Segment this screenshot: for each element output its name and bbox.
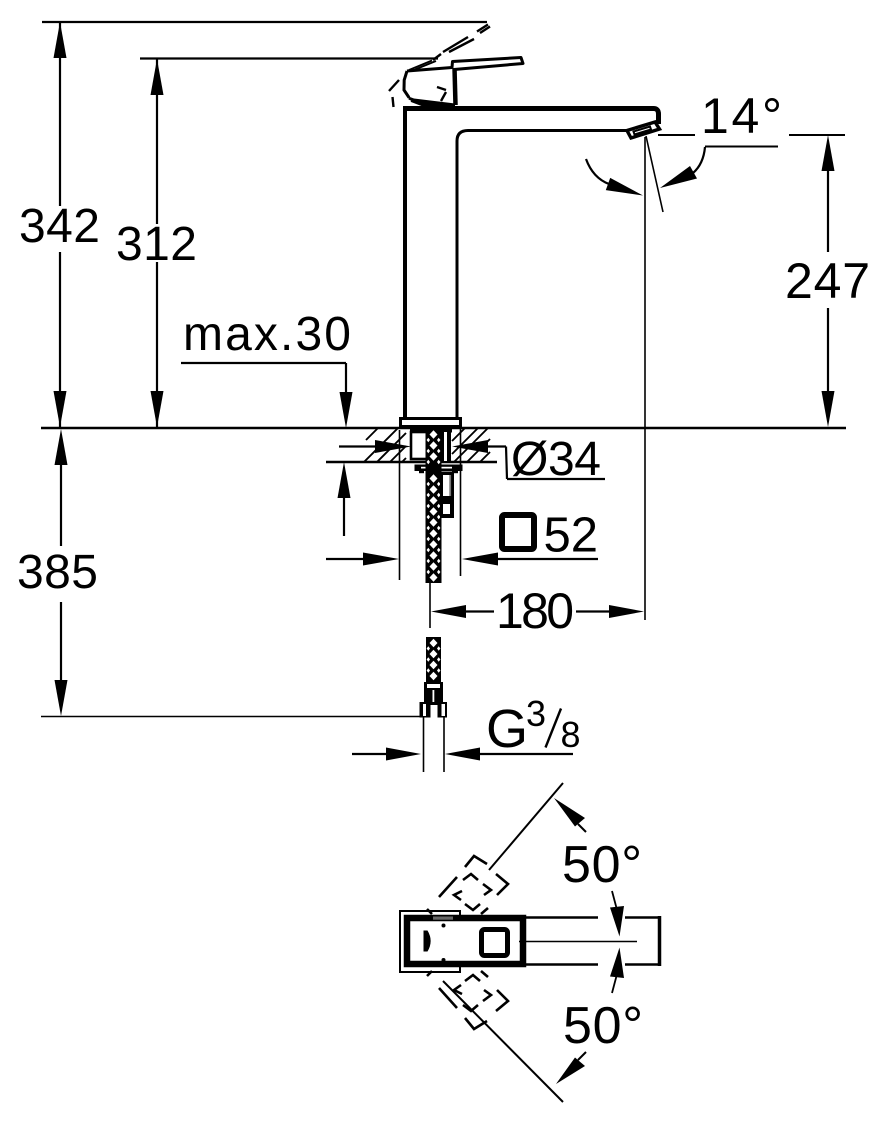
lower braided hose — [426, 637, 441, 682]
svg-text:385: 385 — [17, 546, 98, 599]
label square symbol — [502, 515, 534, 549]
dashed lever raised edge 1 — [433, 25, 488, 61]
top view dot upper — [442, 924, 446, 928]
base plate — [401, 419, 461, 427]
14° reference line right — [789, 134, 845, 136]
top view D blob — [424, 931, 431, 952]
hole top shadow band — [410, 429, 452, 433]
14° lower leader line — [705, 146, 778, 148]
top view handle grey mark — [433, 917, 453, 920]
counter top line — [41, 427, 846, 430]
hose lower tail line — [429, 583, 431, 628]
drain pull rod — [440, 472, 454, 519]
threaded shank with braid pattern — [426, 429, 442, 583]
max.30 leader — [181, 363, 353, 428]
swivel lower arrow — [556, 1052, 586, 1084]
handle base shadow — [409, 97, 456, 108]
supply line bottom reference — [41, 716, 420, 718]
max.30 lower arrow — [338, 462, 351, 536]
swivel lower slim arrow — [610, 948, 624, 994]
supply pipe — [424, 717, 445, 772]
hose fitting — [424, 682, 443, 703]
dashed lever knuckle raised — [389, 80, 446, 107]
svg-text:52: 52 — [544, 509, 599, 563]
52 extension line left — [399, 430, 401, 580]
handle lever front edge — [455, 68, 456, 105]
top view spout outline — [526, 916, 660, 966]
spout underside contour — [457, 131, 627, 419]
52 extension line right — [460, 429, 462, 576]
dashed lever raised edge 2 — [449, 27, 490, 53]
svg-text:312: 312 — [116, 218, 197, 271]
handle lever blade — [407, 58, 523, 72]
14 degree tilted line — [646, 136, 663, 212]
svg-text:50°: 50° — [562, 836, 642, 894]
svg-text:247: 247 — [785, 253, 870, 309]
14° right arc arrow — [660, 147, 705, 188]
under-counter flange — [415, 465, 463, 474]
faucet body top edge / spout top — [403, 109, 659, 125]
counter hatching right — [452, 428, 490, 462]
svg-text:Ø34: Ø34 — [511, 433, 601, 486]
top view centerline — [519, 941, 637, 943]
svg-text:180: 180 — [496, 583, 574, 639]
svg-text:G: G — [486, 699, 528, 759]
dimension 180 — [431, 605, 644, 618]
svg-text:max.30: max.30 — [183, 308, 351, 361]
counter underside line — [326, 461, 497, 463]
svg-text:8: 8 — [561, 714, 581, 755]
dashed handle position lower — [427, 971, 508, 1029]
swivel upper slim arrow — [610, 891, 624, 937]
dimension 342 vertical line — [54, 22, 67, 427]
top view handle body — [407, 918, 523, 964]
top view dot lower — [442, 958, 446, 962]
svg-text:14°: 14° — [701, 88, 782, 144]
dimension Ø34 — [339, 440, 605, 479]
dimension 312 vertical line — [151, 59, 164, 427]
14° left arc arrow — [586, 159, 643, 196]
mounting nut left block — [411, 432, 427, 459]
counter hatching left — [364, 428, 406, 462]
dimension 247 vertical — [822, 135, 835, 427]
label G 3/8 — [486, 693, 581, 759]
handle knuckle — [404, 71, 409, 98]
mounting nut right block — [441, 430, 451, 463]
dimension 385 vertical line — [55, 429, 68, 716]
14° reference line left — [658, 134, 695, 136]
top view base plate square — [400, 911, 460, 972]
dimension 52 — [326, 553, 598, 566]
faucet body left edge — [403, 107, 407, 418]
aerator — [627, 122, 660, 138]
svg-text:3: 3 — [526, 693, 546, 734]
top view cartridge square — [482, 930, 508, 956]
extension line (312 ref) — [140, 57, 438, 59]
svg-text:342: 342 — [19, 200, 100, 253]
svg-text:50°: 50° — [563, 997, 643, 1055]
swivel upper diagonal line — [489, 783, 563, 870]
spout vertical reference line — [644, 137, 646, 620]
dashed handle position upper — [427, 856, 508, 914]
swivel upper arrow — [554, 798, 586, 832]
handle pivot thin lines — [409, 61, 436, 71]
swivel lower diagonal line — [443, 981, 563, 1102]
extension line top (342 ref) — [42, 21, 487, 23]
dimension G3/8 — [352, 748, 573, 761]
hose nut — [420, 702, 448, 718]
